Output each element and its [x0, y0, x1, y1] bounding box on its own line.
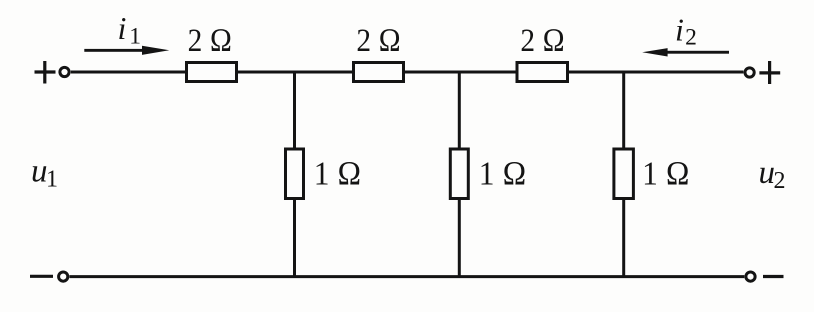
node A: shunt branch 1 wire (top) [293, 72, 296, 148]
resistor R1 2ohm [187, 63, 237, 82]
plus sign left (port 1 +) [35, 61, 56, 84]
terminal circle bottom-left [59, 272, 68, 281]
resistor Rs2 1ohm [450, 149, 468, 199]
minus sign right (port 2 -) [763, 275, 784, 278]
svg-text:1 Ω: 1 Ω [479, 155, 527, 192]
shunt branch 3 wire (bottom) [622, 200, 625, 277]
node C: shunt branch 3 wire (top) [622, 72, 625, 148]
terminal circle top-left [60, 67, 69, 76]
wire top rail: R1 to R2 [238, 71, 352, 74]
svg-text:2 Ω: 2 Ω [520, 21, 565, 58]
wire top rail: R2 to R3 [405, 71, 516, 74]
resistor R2 2ohm [354, 63, 404, 82]
terminal circle bottom-right [746, 272, 755, 281]
svg-text:1 Ω: 1 Ω [314, 155, 362, 192]
svg-text:1 Ω: 1 Ω [642, 155, 690, 192]
terminal circle top-right [745, 68, 754, 77]
wire top rail: TL terminal to R1 [71, 71, 185, 74]
resistor Rs1 1ohm [286, 149, 304, 199]
current arrow i2 [642, 48, 729, 56]
wire top rail: R3 to TR terminal [569, 71, 743, 74]
plus sign right (port 2 +) [759, 61, 780, 84]
node B: shunt branch 2 wire (top) [458, 72, 461, 148]
svg-text:2 Ω: 2 Ω [356, 21, 401, 58]
resistor Rs3 1ohm [614, 149, 634, 199]
shunt branch 1 wire (bottom) [293, 200, 296, 277]
resistor R3 2ohm [517, 63, 568, 82]
shunt branch 2 wire (bottom) [458, 200, 461, 277]
svg-text:2 Ω: 2 Ω [188, 21, 233, 58]
wire bottom rail [70, 275, 745, 278]
minus sign left (port 1 -) [30, 275, 53, 278]
current arrow i1 [84, 46, 169, 55]
